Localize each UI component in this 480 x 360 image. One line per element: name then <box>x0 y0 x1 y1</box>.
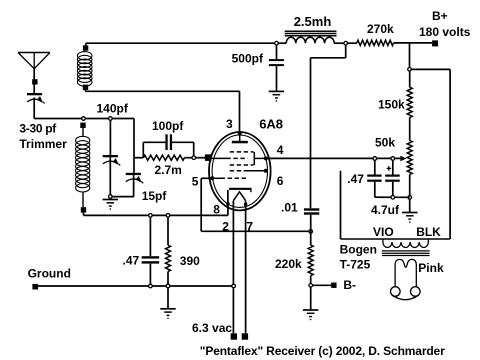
svg-text:Bogen: Bogen <box>340 242 377 256</box>
svg-text:270k: 270k <box>367 22 394 36</box>
svg-text:6A8: 6A8 <box>259 116 283 131</box>
svg-text:.47: .47 <box>347 172 364 186</box>
svg-text:3: 3 <box>226 117 233 131</box>
svg-text:5: 5 <box>192 175 199 189</box>
svg-text:.01: .01 <box>281 200 298 214</box>
svg-text:6.3 vac: 6.3 vac <box>192 321 232 335</box>
svg-text:.47: .47 <box>123 254 140 268</box>
svg-text:B-: B- <box>343 278 356 292</box>
svg-text:VIO: VIO <box>373 225 394 239</box>
svg-text:220k: 220k <box>275 257 302 271</box>
svg-text:B+: B+ <box>432 9 448 23</box>
svg-text:50k: 50k <box>375 136 395 150</box>
svg-text:4.7uf: 4.7uf <box>371 203 400 217</box>
svg-text:Trimmer: Trimmer <box>19 137 67 151</box>
svg-text:4: 4 <box>277 143 284 157</box>
svg-text:180 volts: 180 volts <box>419 25 471 39</box>
svg-text:"Pentaflex" Receiver (c) 2002,: "Pentaflex" Receiver (c) 2002, D. Schmar… <box>200 344 445 358</box>
svg-text:Ground: Ground <box>28 266 71 280</box>
svg-text:150k: 150k <box>378 97 405 111</box>
svg-text:390: 390 <box>180 254 200 268</box>
svg-text:15pf: 15pf <box>142 189 168 203</box>
svg-text:140pf: 140pf <box>97 102 129 116</box>
svg-text:T-725: T-725 <box>340 258 371 272</box>
svg-text:Pink: Pink <box>418 261 444 275</box>
svg-text:6: 6 <box>277 174 284 188</box>
svg-text:BLK: BLK <box>416 225 441 239</box>
svg-text:3-30 pf: 3-30 pf <box>19 122 57 136</box>
svg-text:2.5mh: 2.5mh <box>294 14 332 29</box>
svg-text:100pf: 100pf <box>152 119 184 133</box>
svg-text:2.7m: 2.7m <box>155 163 182 177</box>
svg-text:500pf: 500pf <box>232 52 264 66</box>
